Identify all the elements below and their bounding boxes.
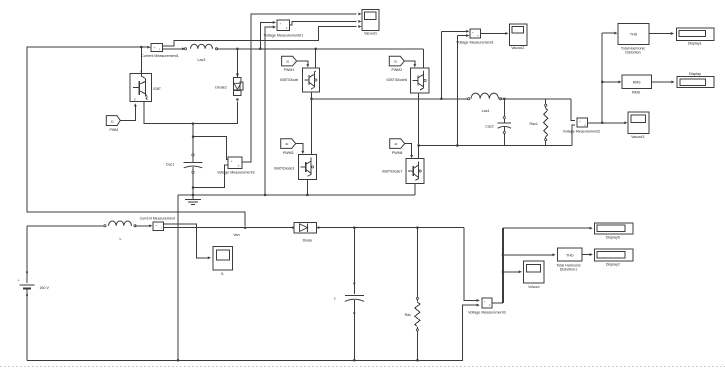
wire to scope Vdcout: [503, 270, 522, 273]
diode Diode: [292, 223, 320, 234]
label IGBT/Diode3: [274, 167, 295, 171]
wire VM1 input1 h: [441, 30, 469, 33]
svg-text:Display1: Display1: [688, 42, 702, 46]
svg-text:Total Harmonic: Total Harmonic: [621, 46, 645, 50]
igbt/diode block Q2: [411, 68, 430, 93]
wire VM3 input1: [192, 136, 228, 160]
svg-text:Voltage Measurement01: Voltage Measurement01: [264, 34, 303, 38]
voltage measurement VM4: [482, 298, 492, 308]
svg-text:IGBT/Diode3: IGBT/Diode3: [274, 167, 295, 171]
svg-text:Vacout1: Vacout1: [364, 31, 377, 35]
page boundary: [0, 366, 725, 368]
resistor Rac1: [544, 104, 548, 141]
svg-text:c: c: [334, 297, 336, 301]
inductor Lac1: [468, 93, 502, 100]
node bridge left mid: [310, 98, 312, 100]
node Cac2 top: [503, 98, 505, 100]
svg-text:IGBT: IGBT: [153, 87, 161, 91]
wire bus corner to Q2 top: [422, 49, 424, 68]
label L: [119, 237, 121, 241]
wire lower loop left: [26, 226, 28, 283]
node Q3 bottom: [306, 194, 308, 196]
svg-text:Voltage Measurement1: Voltage Measurement1: [456, 41, 493, 45]
svg-text:PWM1: PWM1: [284, 68, 295, 72]
svg-text:Cac1: Cac1: [166, 163, 175, 167]
junction Van to boost loop: [244, 227, 246, 229]
label IGBT/Diode7: [382, 170, 403, 174]
diode D2 stub bottom: [236, 98, 238, 100]
svg-text:Diode2: Diode2: [215, 86, 227, 90]
display Display: [677, 77, 714, 88]
wire dc bus down to lower circuit: [177, 195, 179, 361]
node bridge right mid: [418, 144, 420, 146]
wire RMS to Display: [652, 80, 675, 83]
wire PWM1 to gate: [297, 61, 310, 67]
display Display5: [594, 223, 632, 234]
wire IGBT emitter to Diode2 bottom: [144, 101, 237, 123]
svg-text:Rac1: Rac1: [529, 122, 538, 126]
node Rdc branch: [416, 227, 418, 229]
label Lac3: [197, 58, 205, 62]
svg-text:PWM2: PWM2: [391, 68, 402, 72]
display Display2: [594, 249, 632, 261]
wire VM01 input2: [265, 26, 276, 195]
node VM01 minus: [264, 194, 266, 196]
capacitor Cac2: [498, 116, 511, 133]
arrow scope Vacout1 input3: [358, 25, 361, 28]
node Vdcout tap: [502, 271, 504, 273]
wire top DC bus: [217, 48, 424, 50]
svg-text:Voltage Measurement3: Voltage Measurement3: [217, 170, 254, 174]
label Total Harmonic Distortion1: [556, 264, 580, 272]
svg-text:Current Measurement1: Current Measurement1: [141, 54, 178, 58]
label Van: [233, 233, 239, 237]
wire Q1 emitter: [310, 92, 312, 154]
svg-text:Distortion: Distortion: [625, 50, 640, 54]
capacitor C branch: [353, 228, 355, 362]
node Cac1 branch: [192, 123, 194, 125]
wire bus to Q1 top: [315, 49, 317, 68]
svg-text:+: +: [231, 159, 233, 163]
voltage measurement VM2: [577, 118, 587, 127]
scope Vacout1: [362, 10, 379, 31]
wire Q2 emitter leg: [418, 93, 420, 158]
label Diode2: [215, 86, 227, 90]
svg-text:Display: Display: [689, 72, 701, 76]
wire lower loop left bottom: [26, 288, 28, 360]
label Display1: [688, 42, 702, 46]
svg-text:PWM: PWM: [109, 128, 118, 132]
diode D2 stub top: [236, 49, 238, 78]
wire VM3 input2: [192, 165, 228, 189]
scope Vacout2: [510, 24, 527, 46]
label Display: [689, 72, 701, 76]
svg-text:Lac1: Lac1: [482, 109, 490, 113]
label 150 V: [39, 286, 49, 290]
svg-text:PWM3: PWM3: [283, 151, 294, 155]
scope Vdcout: [523, 261, 544, 283]
svg-text:Rdc: Rdc: [405, 313, 412, 317]
dc source 150V: [18, 271, 35, 296]
wire source to L: [27, 225, 105, 227]
pwm source pentagon PWM: [106, 116, 120, 126]
node VM01 plus: [259, 48, 261, 50]
node THD1 tap: [502, 254, 504, 256]
inductor L: [104, 221, 136, 227]
wire to THD1: [503, 253, 556, 256]
wire PWM3 to gate: [296, 144, 305, 155]
wire PWM4 to gate: [405, 144, 413, 159]
label Voltage Measurement01: [264, 34, 303, 38]
block RMS: [622, 75, 652, 89]
svg-text:RMS: RMS: [632, 91, 641, 95]
svg-text:Vacout3: Vacout3: [631, 135, 644, 139]
wire VM1 input2 h: [457, 34, 469, 37]
scope Vacrms1: [628, 112, 649, 134]
current measurement CM2: [153, 222, 164, 231]
wire CM1 out to Lac3: [163, 47, 186, 50]
label Lac1: [482, 109, 490, 113]
wire Q3 bottom: [306, 179, 308, 195]
block THD1: [558, 248, 583, 261]
svg-text:Display2: Display2: [606, 262, 620, 266]
label Vacrms1: [631, 135, 644, 139]
resistor Rac1 branch: [545, 99, 547, 146]
svg-text:Current Measurement: Current Measurement: [140, 217, 175, 221]
label Current Measurement: [140, 217, 175, 221]
igbt/diode block Q1: [302, 68, 319, 92]
svg-text:IGBT/Diode6: IGBT/Diode6: [387, 78, 408, 82]
wire L to CM: [135, 224, 152, 227]
wire VM2 output: [587, 122, 603, 124]
svg-text:Vacout2: Vacout2: [511, 46, 524, 50]
capacitor C: [345, 282, 364, 314]
resistor Rdc: [415, 297, 420, 331]
svg-text:Diode: Diode: [303, 239, 313, 243]
scope IL: [213, 247, 232, 270]
pwm source PWM3: [281, 139, 296, 155]
wire to THD: [602, 32, 617, 35]
node C branch: [353, 227, 355, 229]
svg-text:THD: THD: [630, 33, 638, 37]
label Rac1: [529, 122, 538, 126]
svg-text:Total Harmonic: Total Harmonic: [556, 264, 580, 268]
wire VM4 output trunk: [492, 227, 593, 303]
wire CM2 i to scope IL: [164, 224, 211, 259]
svg-text:E: E: [146, 97, 148, 101]
wire VM1 input2 leg: [456, 36, 458, 147]
svg-text:IGBT/Diode7: IGBT/Diode7: [382, 170, 403, 174]
label Cac2: [485, 125, 494, 129]
label RMS: [632, 91, 641, 95]
label Vacout1: [364, 31, 377, 35]
pwm source PWM2: [389, 56, 404, 72]
label Display2: [606, 262, 620, 266]
svg-text:PWM4: PWM4: [392, 151, 403, 155]
label Diode: [303, 239, 313, 243]
label Total Harmonic Distortion: [621, 46, 645, 54]
svg-text:Cac2: Cac2: [485, 125, 494, 129]
svg-text:Voltage Measurement3: Voltage Measurement3: [468, 310, 505, 314]
wire bottom DC bus: [178, 194, 415, 196]
label IGBT/Diode: [280, 78, 299, 82]
node ground bus: [192, 194, 194, 196]
svg-text:Distortion1: Distortion1: [560, 268, 577, 272]
block THD: [618, 23, 649, 44]
wire bottom load rail: [419, 145, 572, 147]
node Diode2 top: [236, 48, 238, 50]
svg-text:RMS: RMS: [633, 81, 641, 85]
svg-text:Lac3: Lac3: [197, 58, 205, 62]
svg-text:+: +: [18, 278, 20, 282]
inductor Lac3: [184, 44, 217, 50]
wire IGBT collector stub: [140, 46, 142, 74]
svg-text:Display5: Display5: [606, 236, 620, 240]
svg-text:C: C: [140, 70, 142, 74]
label IGBT/Diode6: [387, 78, 408, 82]
label Voltage Measurement4: [468, 310, 505, 314]
node bridge left top: [315, 48, 317, 50]
wire CM1 i-output to scope input3: [163, 27, 357, 47]
pwm source PWM4: [390, 139, 405, 155]
svg-text:Vdcout: Vdcout: [528, 285, 539, 289]
capacitor Cac2 branch: [503, 99, 505, 146]
wire bridge mid rail: [311, 98, 468, 100]
label Current Measurement1: [141, 54, 178, 58]
wire THD to Display1: [649, 32, 674, 35]
igbt/diode block Q4: [406, 159, 424, 184]
wire VM1 to scope: [481, 32, 509, 35]
wire Q4 bottom: [414, 183, 416, 195]
label Voltage Measurement1: [456, 41, 493, 45]
label Voltage Measurement2: [563, 129, 600, 133]
svg-text:IGBT/Diode: IGBT/Diode: [280, 78, 299, 82]
svg-text:L: L: [119, 237, 121, 241]
arrow into Current Measurement1: [147, 46, 150, 49]
label Display5: [606, 236, 620, 240]
wire THD1 to Display2: [582, 253, 593, 256]
wire CM2 out Van node: [164, 227, 464, 229]
wire PWM to IGBT gate: [120, 103, 136, 120]
label Vacout2: [511, 46, 524, 50]
pwm source PWM1: [282, 56, 297, 72]
label Vdcout: [528, 285, 539, 289]
current measurement CM1: [151, 44, 163, 52]
diode Diode2: [233, 78, 243, 96]
wire top-left loop: [27, 47, 245, 226]
wire VM1 input1 leg: [440, 31, 442, 100]
label Cac1: [166, 163, 175, 167]
svg-text:Van: Van: [233, 233, 239, 237]
igbt/diode block Q3: [299, 155, 317, 180]
wire to RMS: [601, 80, 621, 83]
ground: [185, 195, 201, 205]
wire rail after Lac1: [501, 98, 572, 100]
wire to VMdc input1: [464, 228, 480, 302]
wire rail end to VM2 input2: [572, 125, 575, 146]
label Voltage Measurement3: [217, 170, 254, 174]
wire to scope Vacrms: [602, 121, 627, 124]
voltage measurement VM3: [228, 157, 242, 169]
wire measurement trunk: [601, 33, 603, 123]
voltage measurement VM01: [277, 20, 290, 31]
wire VM01 input1: [260, 21, 276, 49]
label PWM: [109, 128, 118, 132]
svg-text:Voltage Measurement2: Voltage Measurement2: [563, 129, 600, 133]
capacitor Cac1 branch wire: [192, 124, 194, 195]
label IL: [221, 272, 224, 276]
svg-text:+: +: [154, 46, 156, 50]
wire PWM2 to gate: [404, 61, 416, 67]
transistor IGBT: [130, 70, 151, 102]
svg-text:+: +: [279, 22, 281, 26]
wire VM3 output to scope: [242, 14, 357, 162]
resistor Rdc branch: [416, 228, 418, 362]
wire rail corner to VM2 input1: [571, 99, 575, 121]
label Rdc: [405, 313, 412, 317]
display Display1: [677, 28, 714, 41]
svg-text:THD: THD: [566, 253, 574, 257]
arrow scope Vacout1 input1: [358, 12, 361, 15]
svg-text:IL: IL: [221, 272, 224, 276]
voltage measurement VM1: [470, 29, 481, 38]
svg-text:150 V: 150 V: [39, 286, 49, 290]
label IGBT: [153, 87, 161, 91]
capacitor Cac1: [184, 154, 203, 174]
wire bottom return bus: [27, 304, 480, 361]
wire VM01 output to scope input2: [289, 20, 361, 25]
label C: [334, 297, 336, 301]
